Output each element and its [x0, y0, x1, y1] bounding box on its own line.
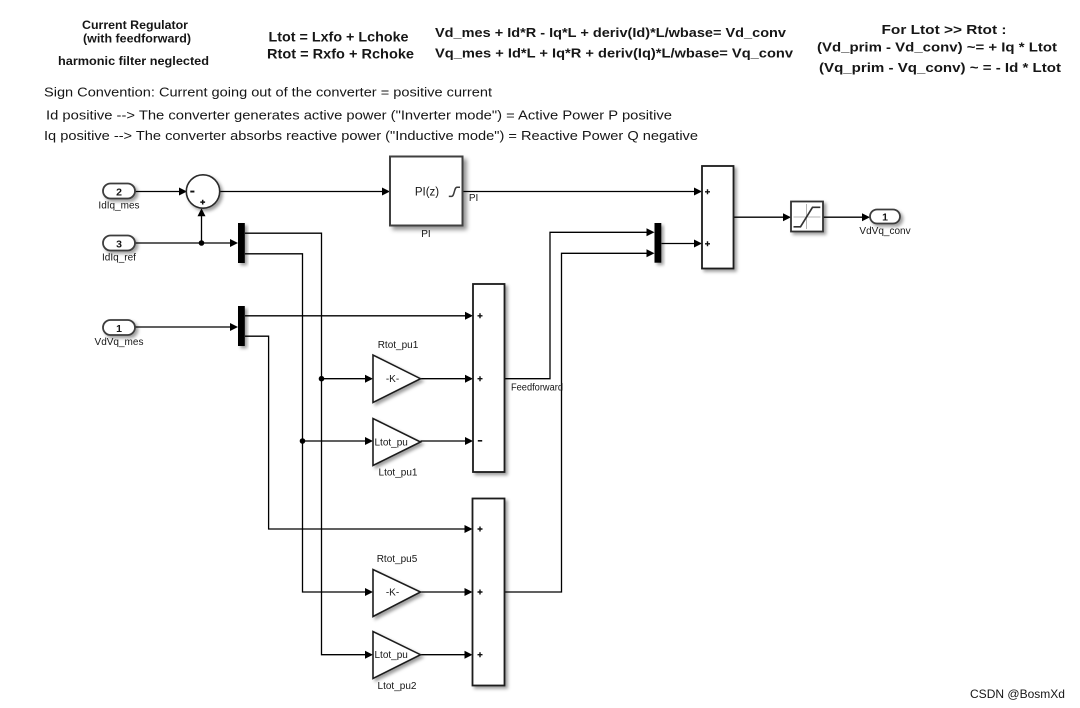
- svg-text:Iq positive --> The converter: Iq positive --> The converter absorbs re…: [44, 129, 698, 143]
- PI block (discrete PI controller): [390, 157, 478, 241]
- svg-text:(with feedforward): (with feedforward): [83, 32, 191, 46]
- wire: Sum circle to PI block: [219, 188, 390, 196]
- wire: Mux3 output to Sum3 input 2: [662, 240, 703, 248]
- svg-text:Sign Convention: Current going: Sign Convention: Current going out of th…: [44, 86, 493, 100]
- outport 1 (VdVq_conv): [859, 210, 910, 238]
- svg-text:-K-: -K-: [386, 374, 399, 385]
- sum1 block (feedforward adder): [473, 284, 505, 472]
- wire: Inport 2 to Sum circle: [135, 188, 187, 196]
- svg-text:VdVq_mes: VdVq_mes: [95, 337, 144, 348]
- svg-text:1: 1: [116, 323, 122, 335]
- inport 3 (IdIq_ref): [102, 236, 136, 264]
- gain Rtot_pu5 (-K-): [373, 554, 421, 617]
- svg-text:(Vd_prim - Vd_conv) ~= + Iq: (Vd_prim - Vd_conv) ~= + Iq * Ltot: [817, 40, 1058, 55]
- gain Ltot_pu2: [373, 632, 421, 693]
- wire: Demux1 output 2 down to Rtot_pu5 gain, junction to Ltot_pu1 gain: [245, 254, 373, 596]
- svg-text:Ltot_pu: Ltot_pu: [375, 437, 408, 448]
- svg-text:Rtot = Rxfo + Rchoke: Rtot = Rxfo + Rchoke: [267, 45, 414, 61]
- wire: PI block output to Sum3 input 1: [463, 188, 703, 196]
- gain Ltot_pu1: [373, 419, 421, 479]
- sum3 block (final adder): [702, 166, 734, 269]
- inport 1 (VdVq_mes): [95, 320, 144, 348]
- demux 2 (VdVq_mes splitter): [238, 306, 245, 346]
- svg-text:Id positive --> The converter: Id positive --> The converter generates …: [46, 108, 672, 122]
- sum2 block (harmonic feedforward adder): [473, 499, 505, 686]
- wire: Inport 1 to Demux2: [134, 323, 238, 331]
- svg-text:PI: PI: [469, 193, 478, 204]
- inport 2 (IdIq_mes): [98, 184, 139, 212]
- wire: Saturation to Outport 1: [823, 213, 870, 221]
- wire: Ltot_pu1 gain to Sum1 input 3: [421, 437, 474, 445]
- wire: Ltot_pu2 gain to Sum2 input 3: [421, 651, 473, 659]
- svg-text:Ltot_pu: Ltot_pu: [375, 650, 408, 661]
- wire: Sum1 output (Feedforward) up to Mux3 input 1: [505, 228, 655, 378]
- svg-text:3: 3: [116, 238, 122, 250]
- wire: Demux2 output 1 to Sum1 input 1: [245, 312, 473, 320]
- sum circle (error junction): [186, 175, 219, 208]
- wire: Sum2 output up to Mux3 input 2: [505, 249, 655, 592]
- saturation block: [791, 202, 823, 232]
- svg-text:IdIq_mes: IdIq_mes: [98, 201, 139, 212]
- svg-text:PI: PI: [421, 229, 430, 240]
- svg-text:-K-: -K-: [386, 588, 399, 599]
- svg-text:2: 2: [116, 186, 122, 198]
- gain Rtot_pu1 (-K-): [373, 340, 421, 403]
- svg-text:CSDN @BosmXd: CSDN @BosmXd: [970, 687, 1065, 701]
- wire: Sum3 output to Saturation: [734, 213, 792, 221]
- svg-text:Rtot_pu1: Rtot_pu1: [378, 340, 419, 351]
- svg-text:1: 1: [882, 211, 888, 223]
- svg-text:Rtot_pu5: Rtot_pu5: [377, 554, 418, 565]
- svg-text:Ltot = Lxfo + Lchoke: Ltot = Lxfo + Lchoke: [269, 28, 409, 44]
- svg-text:Ltot_pu1: Ltot_pu1: [379, 468, 418, 479]
- svg-text:IdIq_ref: IdIq_ref: [102, 253, 136, 264]
- svg-text:VdVq_conv: VdVq_conv: [859, 226, 910, 237]
- mux 3 (combines feedforward signals): [655, 223, 662, 263]
- svg-text:PI(z): PI(z): [415, 186, 439, 198]
- wire: Demux2 output 2 down and right to Sum2 input 1: [245, 336, 473, 533]
- svg-text:Current Regulator: Current Regulator: [82, 18, 188, 32]
- svg-text:Vd_mes + Id*R - Iq*L + deriv(I: Vd_mes + Id*R - Iq*L + deriv(Id)*L/wbase…: [435, 25, 787, 40]
- svg-text:Ltot_pu2: Ltot_pu2: [378, 681, 417, 692]
- svg-text:(Vq_prim - Vq_conv) ~ = - Id: (Vq_prim - Vq_conv) ~ = - Id * Ltot: [819, 60, 1062, 75]
- wire: Rtot_pu1 gain to Sum1 input 2: [421, 375, 474, 383]
- demux 1 (IdIq_ref splitter): [238, 223, 245, 263]
- svg-text:Vq_mes + Id*L + Iq*R + deriv(: Vq_mes + Id*L + Iq*R + deriv(Iq)*L/wbase…: [435, 45, 794, 60]
- wire: Inport 3 to Demux1, junction, branch up to Sum circle: [135, 208, 238, 247]
- svg-text:For Ltot >> Rtot :: For Ltot >> Rtot :: [882, 22, 1007, 37]
- wire: Rtot_pu5 gain to Sum2 input 2: [421, 588, 473, 596]
- svg-text:Feedforward: Feedforward: [511, 382, 563, 393]
- svg-text:harmonic filter neglected: harmonic filter neglected: [58, 54, 209, 68]
- wire: Demux1 output 1 down to Ltot_pu2 gain, junction to Rtot_pu1 gain: [245, 233, 373, 659]
